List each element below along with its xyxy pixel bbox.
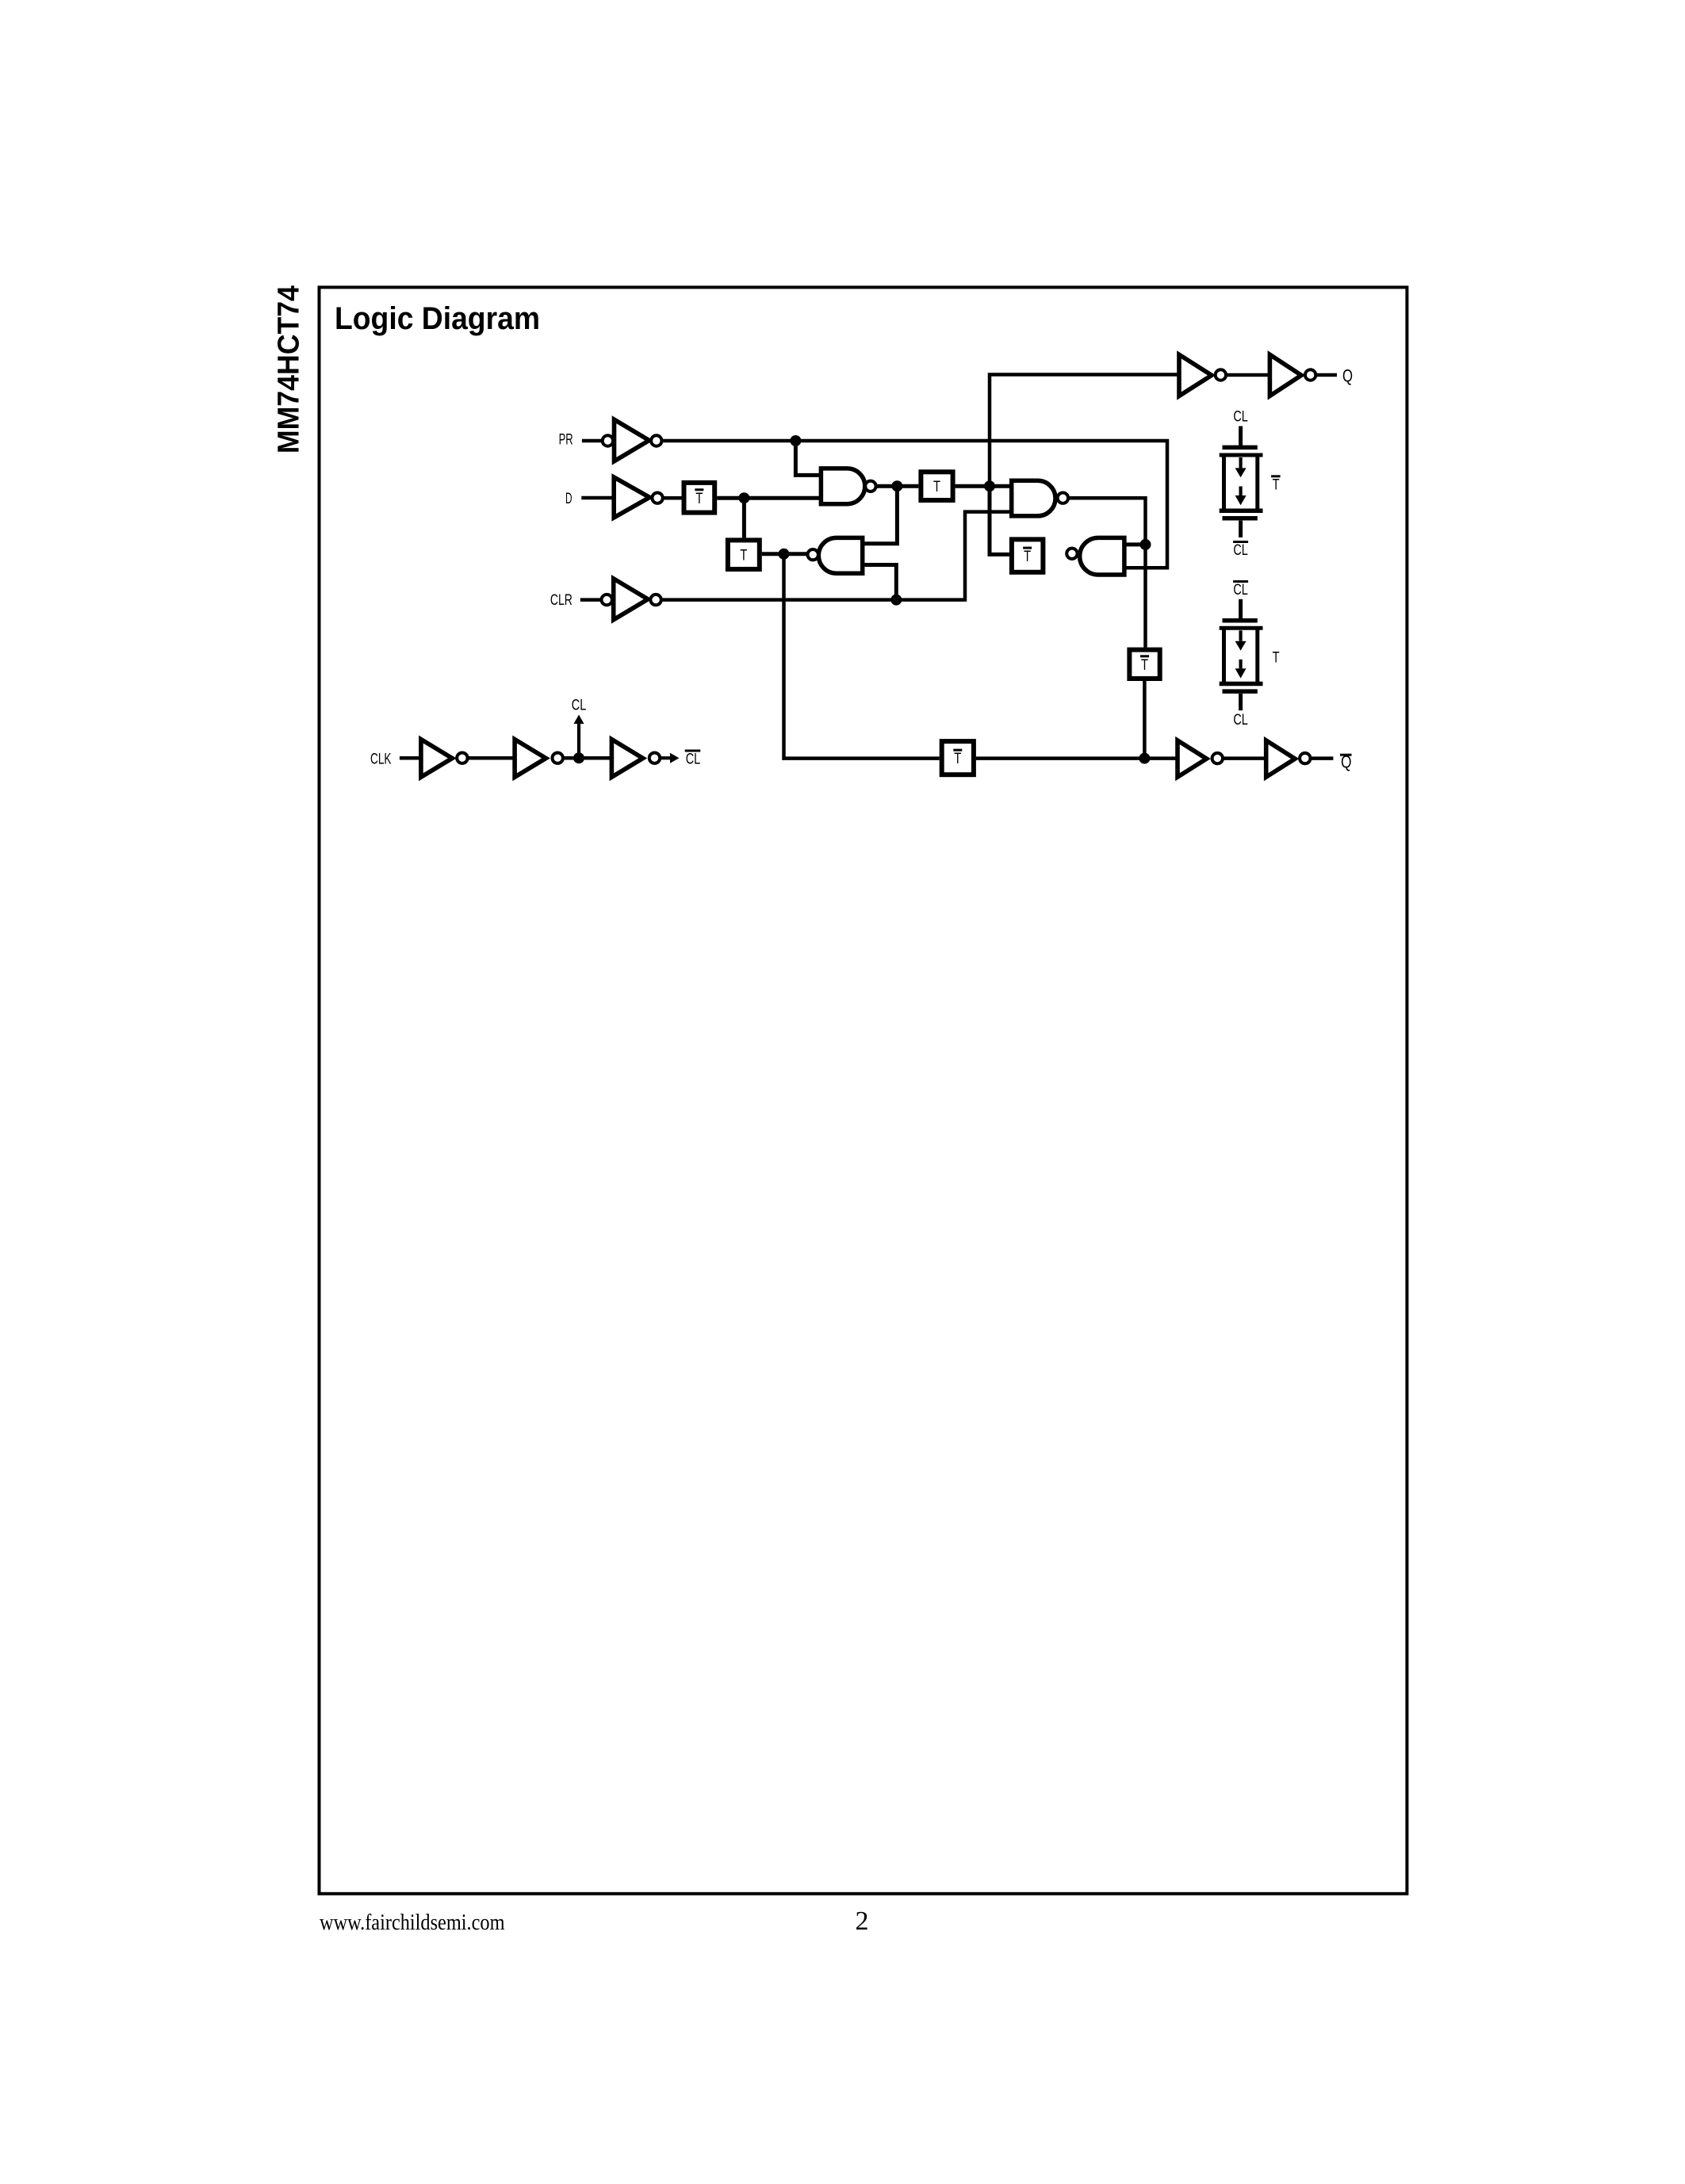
junction slave node (779, 549, 790, 560)
junction CLR / G4 branch (890, 595, 902, 606)
wire CLR input (580, 598, 603, 602)
inverter U3 Q buffer 1 (1179, 354, 1226, 396)
inverter U10 Q-bar buffer 2 (1266, 740, 1311, 777)
wire D node down to TG2 (742, 498, 746, 537)
svg-text:T: T (933, 479, 940, 495)
transmission gate TG3 (T) (921, 472, 952, 500)
wire TG5 down to Q-bar node (1143, 681, 1147, 759)
wire G2 output down to TG5 (1068, 498, 1146, 647)
junction D latch node (738, 492, 749, 503)
wire TG3 to G2 top input (955, 484, 1012, 488)
svg-text:CLK: CLK (370, 752, 392, 768)
wire PR branch to G1 top input (795, 441, 821, 475)
svg-text:T: T (1273, 650, 1280, 667)
svg-text:T: T (1024, 549, 1031, 565)
wire U5 to U6 (468, 756, 516, 760)
svg-text:T: T (740, 548, 747, 564)
wire D input (581, 496, 615, 500)
transmission gate TG5 (T-bar) (1129, 650, 1159, 679)
inverter U8 CLR buffer (602, 579, 661, 620)
svg-text:CL: CL (1233, 582, 1248, 599)
wire U6 to U7 (563, 756, 612, 760)
svg-text:www.fairchildsemi.com: www.fairchildsemi.com (320, 1911, 505, 1935)
NAND gate G2 (1012, 480, 1068, 516)
clock gating symbol T legend (1220, 582, 1280, 729)
svg-text:D: D (565, 491, 573, 507)
wire TG1 to G1 lower input (717, 496, 821, 500)
NAND gate G3 (mirrored) (1067, 537, 1124, 575)
inverter U1 PR buffer (603, 419, 662, 461)
node Q (1315, 373, 1337, 377)
svg-text:Q: Q (1342, 366, 1353, 386)
wire CL arrow up (577, 724, 580, 758)
junction G1 output (891, 480, 902, 491)
wire TG2 output to G4 (762, 552, 808, 556)
wire U9 to U10 (1223, 756, 1266, 760)
svg-text:CL: CL (572, 698, 587, 714)
svg-text:T: T (695, 491, 703, 507)
wire U3 to U4 (1226, 373, 1270, 377)
svg-text:PR: PR (559, 432, 573, 449)
wire CL-bar arrow (660, 756, 670, 759)
svg-text:CL: CL (686, 752, 701, 768)
junction master node (984, 480, 995, 491)
svg-text:CL: CL (1233, 409, 1248, 426)
transmission gate TG1 (T-bar) (684, 483, 715, 513)
inverter U2 D buffer (614, 477, 663, 518)
wire master node down to TG4 (990, 486, 1009, 554)
node Q-bar (1310, 756, 1333, 760)
svg-text:CLR: CLR (550, 592, 573, 609)
wire PR net to G3 lower input (661, 441, 1167, 568)
clock gating symbol T-bar legend (1220, 409, 1281, 559)
svg-text:CL: CL (1233, 542, 1248, 559)
junction CL node (573, 752, 584, 763)
wire CLK input (400, 756, 422, 760)
inverter U9 Q-bar buffer 1 (1178, 740, 1223, 777)
svg-text:T: T (1141, 657, 1148, 674)
svg-text:2: 2 (856, 1907, 869, 1936)
wire G1 output down to G4 top input (863, 486, 898, 544)
wire PR input (582, 439, 603, 443)
wire G1 output (875, 484, 918, 488)
junction G2 output / G3 top input (1140, 539, 1151, 550)
svg-text:T: T (1273, 476, 1280, 493)
inverter U7 clock buffer 3 (611, 740, 660, 778)
transmission gate TG6 (T-bar) on Q-bar line (942, 741, 974, 775)
wire TG6 to U9 (976, 756, 1178, 760)
wire G3 top input (1124, 542, 1146, 546)
wire U2 to TG1 (663, 496, 682, 500)
transmission gate TG4 (T-bar) (1012, 539, 1044, 572)
NAND gate G1 (821, 469, 875, 504)
NAND gate G4 (mirrored) (807, 537, 862, 573)
inverter U4 Q buffer 2 (1269, 354, 1315, 396)
svg-text:CL: CL (1233, 712, 1248, 729)
inverter U6 clock buffer 2 (515, 740, 563, 778)
junction PR / G1 branch (790, 435, 801, 446)
transmission gate TG2 (T) (728, 540, 760, 569)
junction Q-bar node (1139, 753, 1150, 764)
inverter U5 clock buffer 1 (421, 740, 468, 778)
svg-text:Logic Diagram: Logic Diagram (335, 301, 540, 336)
wire G4 bottom input to CLR net (863, 565, 897, 600)
wire CLR net to G2 bottom input (661, 512, 1012, 600)
wire slave node down to Q-bar line (784, 554, 940, 759)
svg-text:MM74HCT74: MM74HCT74 (272, 285, 305, 453)
svg-text:T: T (954, 751, 961, 767)
wire master node up to Q line (990, 375, 1179, 487)
